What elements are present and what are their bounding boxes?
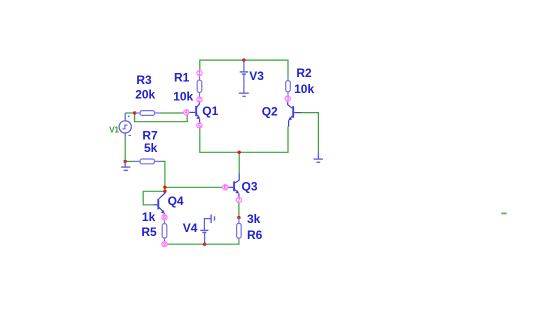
- svg-text:V3: V3: [249, 69, 264, 83]
- svg-text:3k: 3k: [247, 212, 261, 226]
- resistor R2: [286, 77, 291, 96]
- svg-text:20k: 20k: [135, 87, 155, 101]
- svg-text:R6: R6: [247, 228, 263, 242]
- svg-text:4: 4: [185, 110, 188, 116]
- junction dot V3 top rail: [242, 58, 245, 61]
- svg-text:R5: R5: [141, 225, 157, 239]
- wire node 7 to R6: [238, 203, 240, 218]
- wire lower parallel branch to node 4: [135, 113, 188, 122]
- svg-text:3: 3: [286, 97, 289, 103]
- node 7: [236, 197, 241, 203]
- resistor R7: [135, 159, 161, 164]
- node 2: [197, 97, 202, 103]
- wire R3 right to node 4: [160, 112, 183, 114]
- wire down to Q4 collector: [164, 187, 166, 191]
- transistor Q3: [228, 173, 239, 197]
- resistor R3: [135, 111, 161, 116]
- ground right of Q2: [314, 153, 323, 163]
- svg-text:Q4: Q4: [168, 194, 184, 208]
- svg-text:1k: 1k: [142, 210, 156, 224]
- wire R7 right then down: [160, 161, 165, 187]
- battery V4: [200, 214, 214, 244]
- wire bottom rail: [165, 241, 239, 247]
- wire mid emitter rail: [200, 126, 288, 152]
- resistor R1: [197, 76, 202, 97]
- wire ground junction to R7: [125, 160, 135, 162]
- transistor Q2: [288, 101, 302, 126]
- wire top rail: [200, 60, 288, 77]
- node 8: [162, 215, 167, 221]
- svg-text:5k: 5k: [144, 141, 158, 155]
- svg-text:1: 1: [198, 71, 201, 77]
- node 6: [223, 185, 228, 191]
- svg-text:R1: R1: [174, 71, 190, 85]
- svg-text:R2: R2: [296, 66, 312, 80]
- svg-text:2: 2: [198, 97, 201, 103]
- junction dot Q4 collector loop: [163, 190, 166, 193]
- wire Q2 base to ground: [301, 113, 318, 153]
- svg-text:9: 9: [163, 242, 166, 248]
- svg-text:V4: V4: [183, 221, 198, 235]
- transistor Q4: [153, 191, 164, 214]
- battery V3: [240, 60, 248, 93]
- junction dot V1 R3: [133, 111, 136, 114]
- ground under V1: [121, 161, 130, 170]
- junction dot R6 top: [237, 216, 240, 219]
- node 1: [197, 70, 202, 76]
- junction dot V4 bottom: [203, 243, 206, 246]
- svg-text:5: 5: [198, 123, 201, 129]
- svg-text:10k: 10k: [173, 90, 193, 104]
- node 4: [184, 110, 189, 116]
- wire V1 plus to R3: [125, 112, 135, 114]
- svg-text:Q2: Q2: [262, 104, 278, 118]
- svg-text:Q1: Q1: [202, 104, 218, 118]
- resistor R6: [237, 218, 242, 242]
- wire to Q3 base node 6: [165, 186, 223, 188]
- node 3: [285, 96, 290, 102]
- wire stray dash right: [501, 213, 506, 215]
- svg-text:R3: R3: [136, 73, 152, 87]
- junction dot V1 ground R7: [124, 160, 127, 163]
- svg-text:10k: 10k: [294, 82, 314, 96]
- svg-text:8: 8: [163, 215, 166, 221]
- svg-text:V1: V1: [109, 125, 119, 134]
- ground under V3: [239, 93, 249, 96]
- wire Q3 collector drop: [238, 152, 240, 173]
- svg-text:6: 6: [224, 185, 227, 191]
- junction dot mid rail: [238, 151, 241, 154]
- svg-text:7: 7: [238, 198, 241, 204]
- node 5: [197, 123, 202, 129]
- svg-text:Q3: Q3: [242, 180, 258, 194]
- node 9: [162, 242, 167, 248]
- wire Q4 base loop: [143, 191, 165, 205]
- transistor Q1: [189, 102, 200, 123]
- wire V1 minus down to ground junction: [124, 138, 126, 162]
- junction dot R7 Q3 base: [163, 186, 166, 189]
- voltage source V1: [119, 113, 131, 138]
- resistor R5: [162, 220, 167, 242]
